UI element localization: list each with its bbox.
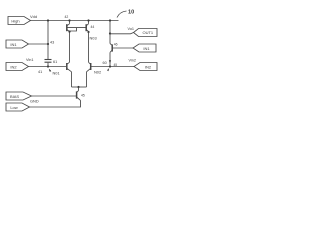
transistor Q3 mirror left — [67, 19, 71, 31]
svg-text:N01: N01 — [53, 71, 60, 76]
wire Q6 collector drop from rail — [109, 21, 111, 44]
svg-text:IN1: IN1 — [143, 46, 150, 51]
pin box INB — [133, 44, 156, 52]
svg-text:OUT1: OUT1 — [142, 30, 153, 35]
svg-text:Vdd: Vdd — [30, 14, 37, 19]
svg-text:IN2: IN2 — [10, 64, 17, 69]
wire OUT1 — [110, 33, 134, 34]
svg-text:45: 45 — [81, 94, 85, 98]
svg-text:Vo1: Vo1 — [128, 27, 135, 31]
wire Q6 emitter to node N02 — [109, 52, 111, 66]
pin box IN2 — [6, 63, 29, 71]
node mirror left collector — [68, 31, 70, 33]
transistor Q4 mirror right — [86, 19, 89, 31]
svg-text:IN2: IN2 — [145, 64, 152, 69]
svg-text:43: 43 — [50, 41, 54, 45]
wire top rail — [31, 20, 119, 22]
transistor Q2 diff right — [87, 62, 91, 72]
wire tail drop — [78, 87, 80, 91]
svg-text:44: 44 — [91, 25, 95, 29]
wire Q1 emitter drop — [71, 72, 73, 87]
label N02 — [94, 68, 109, 75]
wire Q6 base to INB — [112, 47, 133, 49]
pin box Low — [6, 103, 30, 111]
svg-text:Low: Low — [10, 105, 17, 110]
pin box INN — [134, 63, 157, 71]
wire diode connect stub — [70, 28, 77, 31]
wire cap to node N01 — [47, 63, 49, 67]
label N01 — [49, 69, 60, 76]
svg-text:High: High — [11, 18, 19, 23]
leader line to 10 — [117, 11, 127, 18]
svg-text:46: 46 — [114, 43, 118, 47]
node OUT tap — [109, 32, 111, 34]
wire Low to Q5 emitter — [30, 100, 81, 107]
svg-text:Vin1: Vin1 — [26, 58, 34, 62]
node 43 junction — [47, 43, 49, 45]
svg-text:42: 42 — [65, 15, 69, 19]
wire left branch vertical — [69, 32, 71, 63]
pin box High — [8, 17, 31, 25]
pin box BIAS — [6, 92, 32, 100]
wire IN1 to node — [29, 43, 49, 45]
transistor Q5 tail — [77, 91, 81, 101]
svg-text:Vin2: Vin2 — [129, 59, 137, 63]
svg-text:45: 45 — [114, 63, 118, 67]
svg-text:41: 41 — [38, 70, 42, 74]
capacitor C1 — [45, 60, 52, 63]
svg-text:IN1: IN1 — [10, 42, 17, 47]
wire emitter joiner — [72, 86, 87, 88]
wire mirror base tie — [67, 27, 86, 29]
transistor Q1 diff left — [67, 62, 72, 72]
wire right branch vertical — [88, 32, 90, 62]
node mirror right collector — [87, 31, 89, 33]
svg-text:N03: N03 — [90, 36, 97, 41]
pin box OUT1 — [134, 29, 158, 37]
wire IN2 to Q1 base — [29, 66, 67, 68]
node rail-cap — [47, 19, 49, 21]
wire cap branch vertical — [47, 21, 49, 60]
node tail — [77, 86, 79, 88]
node rail right — [109, 19, 111, 21]
wire BIAS to Q5 base — [32, 95, 77, 97]
svg-text:60: 60 — [103, 61, 107, 65]
svg-text:GND: GND — [30, 98, 39, 103]
wire Q2 emitter drop — [86, 72, 88, 87]
node N02 junction — [109, 65, 111, 67]
svg-text:61: 61 — [53, 60, 57, 64]
wire Q2 base from node N02 — [91, 66, 134, 68]
svg-text:N02: N02 — [94, 70, 101, 75]
pin box IN1 — [6, 40, 29, 48]
node N01 junction — [47, 65, 49, 67]
transistor Q6 right input — [110, 44, 112, 53]
svg-text:10: 10 — [128, 10, 134, 16]
svg-text:BIAS: BIAS — [10, 94, 19, 99]
